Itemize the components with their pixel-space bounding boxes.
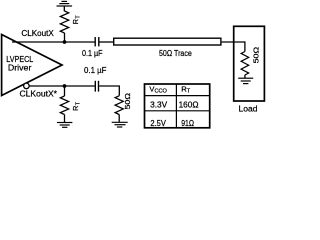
ground GND2 (bottom left) <box>57 123 73 128</box>
svg-text:CLKoutX: CLKoutX <box>21 29 54 38</box>
ground GND1 (top, inverted) <box>57 1 73 11</box>
node junction top <box>63 40 67 44</box>
op-amp U1 LVPECL driver triangle <box>2 35 62 96</box>
svg-text:50Ω: 50Ω <box>123 92 132 109</box>
50 ohm trace rectangle <box>114 38 221 45</box>
svg-text:50Ω Trace: 50Ω Trace <box>159 48 192 58</box>
svg-text:0.1 µF: 0.1 µF <box>84 66 107 75</box>
wire node to R_T bottom <box>64 86 66 96</box>
wire trace to load <box>222 41 245 43</box>
resistor R_T top <box>60 11 68 33</box>
svg-text:Driver: Driver <box>8 63 32 73</box>
svg-text:0.1 µF: 0.1 µF <box>82 49 103 58</box>
svg-text:RT: RT <box>181 85 190 95</box>
wire down to load resistor <box>244 41 246 51</box>
wire load resistor to ground <box>244 75 246 78</box>
svg-text:VCCO: VCCO <box>149 85 167 95</box>
wire 50 ohm resistor to ground <box>118 115 120 123</box>
svg-text:160Ω: 160Ω <box>179 101 199 110</box>
svg-text:91Ω: 91Ω <box>181 119 194 128</box>
resistor 50 ohm load <box>241 52 249 76</box>
load box <box>234 26 265 101</box>
wire C2 to 50 ohm resistor <box>99 86 119 96</box>
capacitor C2 0.1 uF <box>94 81 96 92</box>
wire C1 to trace <box>100 41 114 43</box>
table Vcco / RT <box>145 84 210 128</box>
wire CLKoutX* output <box>29 85 94 87</box>
capacitor C1 0.1 uF <box>94 37 96 46</box>
svg-text:50Ω: 50Ω <box>251 46 260 63</box>
resistor 50 ohm (termination) <box>115 96 123 115</box>
svg-text:Load: Load <box>239 103 258 113</box>
svg-text:RT: RT <box>71 101 81 111</box>
inversion bubble on CLKoutX* output <box>24 83 30 89</box>
node junction bottom <box>63 84 67 88</box>
ground GND3 (termination) <box>112 122 128 127</box>
wire CLKoutX output <box>12 41 95 43</box>
svg-text:3.3V: 3.3V <box>150 101 168 110</box>
ground GND4 (load) <box>238 78 253 83</box>
svg-text:2.5V: 2.5V <box>150 119 166 128</box>
wire R_T bottom to ground <box>64 115 66 123</box>
svg-text:CLKoutX*: CLKoutX* <box>20 89 58 98</box>
svg-text:RT: RT <box>71 15 81 25</box>
wire resistor bottom to node <box>64 33 66 42</box>
resistor R_T bottom <box>60 96 68 115</box>
